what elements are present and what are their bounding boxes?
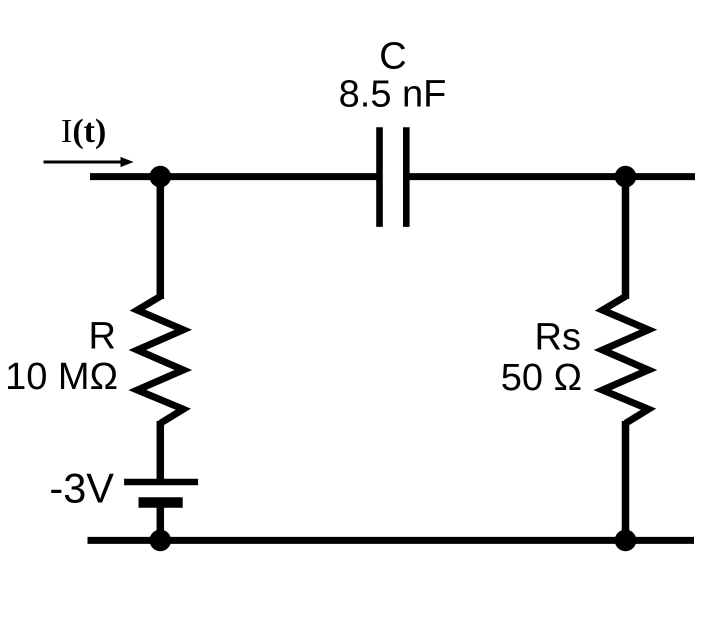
resistor Rs zigzag [603, 296, 649, 423]
wire top-right segment [406, 173, 695, 180]
svg-text:C: C [379, 36, 406, 78]
capacitor C1 right plate [403, 127, 410, 227]
svg-text:8.5 nF: 8.5 nF [339, 74, 447, 116]
svg-text:Rs: Rs [535, 316, 581, 358]
current arrow I(t) shaft [44, 161, 123, 164]
node dot bottom-right [615, 530, 637, 552]
wire right vertical upper [622, 177, 630, 299]
wire top-left segment [90, 173, 380, 180]
node dot bottom-left [150, 530, 172, 552]
svg-text:-3V: -3V [49, 465, 114, 512]
svg-text:10 MΩ: 10 MΩ [5, 356, 118, 398]
svg-text:50 Ω: 50 Ω [501, 357, 582, 399]
wire left vertical middle [157, 421, 165, 482]
battery V1 long plate [124, 479, 198, 486]
svg-text:R: R [89, 316, 116, 358]
node dot top-left [150, 166, 172, 188]
wire right vertical lower [622, 421, 630, 540]
current arrow I(t) head [121, 157, 134, 167]
node dot top-right [615, 166, 637, 188]
wire bottom [88, 537, 695, 544]
wire left vertical upper [157, 177, 165, 299]
wire left vertical lower [157, 503, 165, 541]
capacitor C1 left plate [376, 127, 383, 227]
svg-text:I(t): I(t) [61, 113, 106, 150]
resistor R zigzag [137, 296, 183, 423]
battery V1 short plate [139, 497, 183, 508]
